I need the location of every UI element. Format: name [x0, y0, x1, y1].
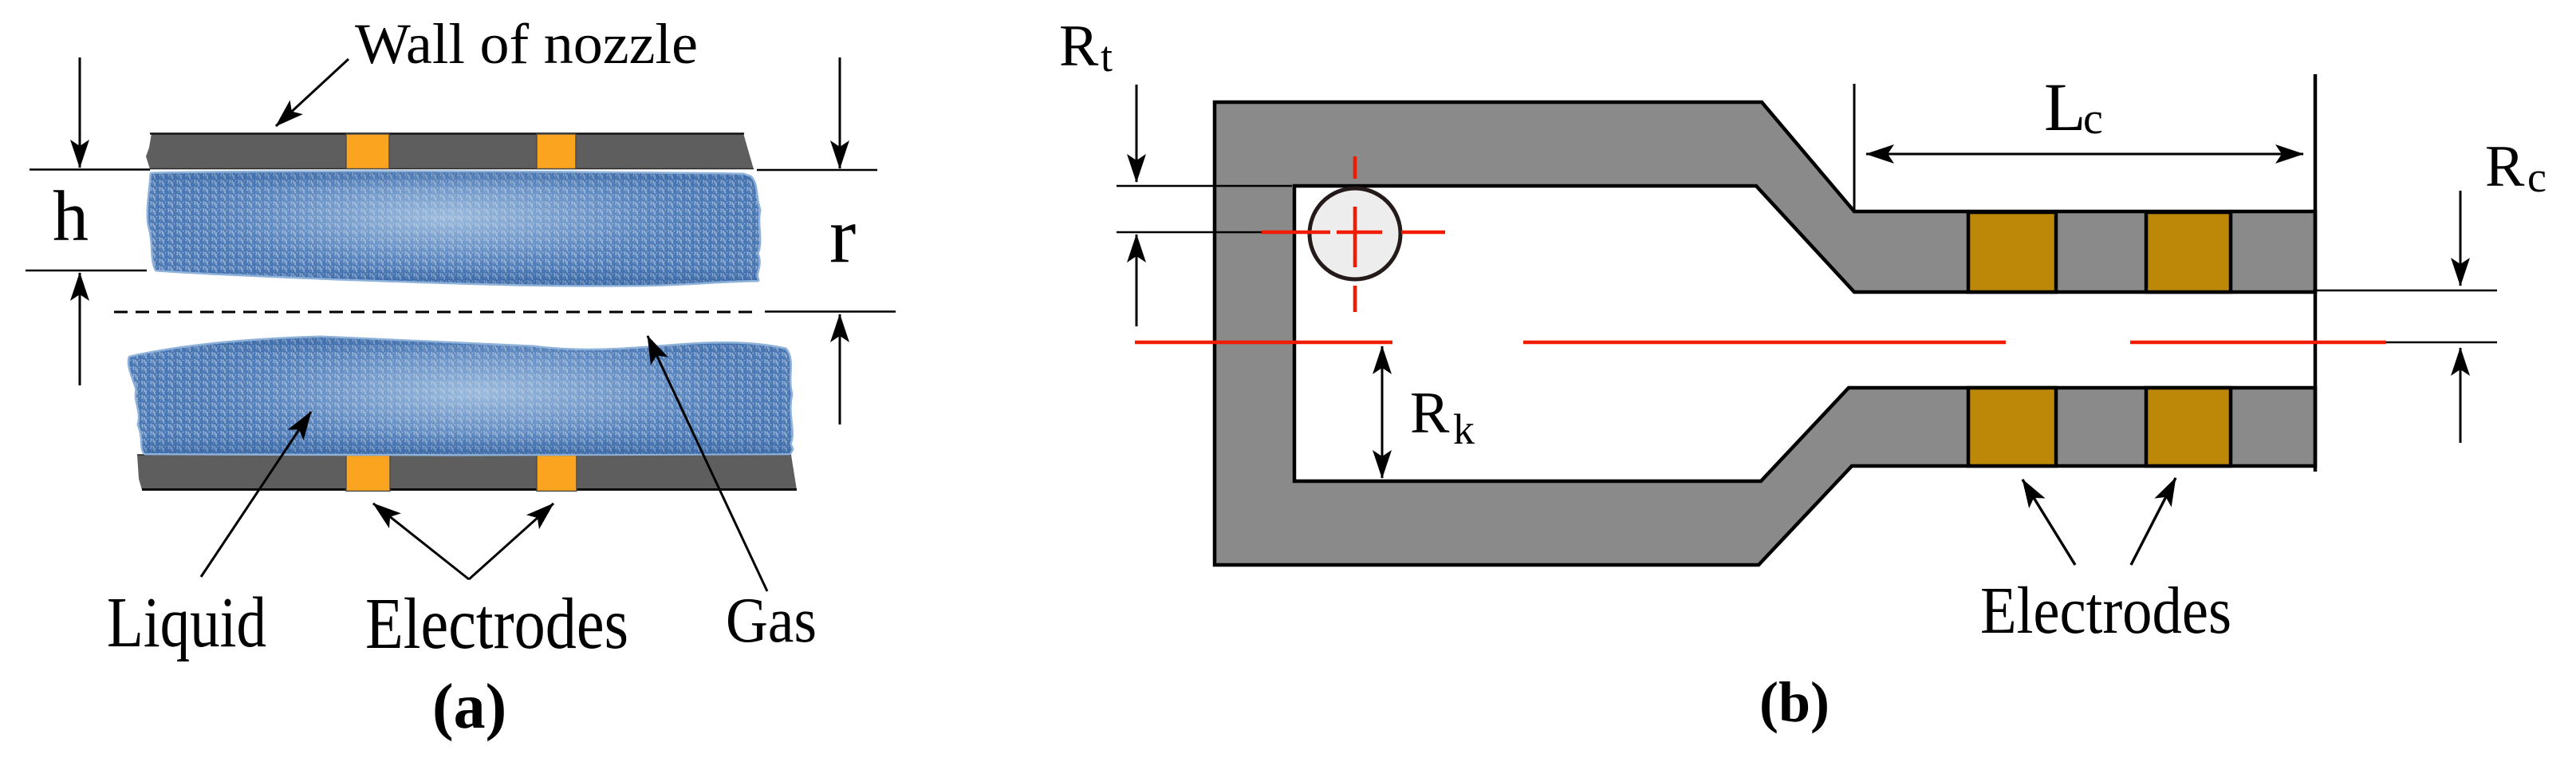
svg-text:Gas: Gas [726, 586, 817, 656]
leader arrow to liquid [201, 412, 311, 577]
r dimension: upper extension line [757, 169, 877, 171]
Rt extension line 1 (tube top) [1117, 185, 1292, 187]
svg-text:(b): (b) [1759, 670, 1830, 734]
solid axis extension right (a) [765, 310, 896, 313]
red axis centerline segments (b) [1135, 341, 2386, 345]
svg-text:R: R [1059, 14, 1099, 79]
svg-text:c: c [2083, 94, 2103, 144]
svg-text:k: k [1453, 405, 1475, 453]
red center mark horizontal [1262, 231, 1445, 235]
Rc up arrow [2460, 348, 2462, 443]
electrode A1 (upper wall, orange) [346, 134, 389, 169]
Rc down arrow [2460, 191, 2462, 286]
electrode A2 (upper wall, orange) [537, 134, 576, 169]
electrode A3 (lower wall, orange) [346, 456, 390, 492]
thin line at capillary inner top, right of exit [2315, 290, 2497, 291]
Rt down arrow [1136, 85, 1138, 182]
leader arrow to gas [648, 336, 767, 591]
wall of nozzle: upper gray bar [146, 133, 754, 169]
thin axis line right of capillary exit (black) [2305, 342, 2497, 343]
h dimension: up arrow [79, 273, 81, 385]
svg-text:h: h [53, 177, 89, 256]
label Rk [1410, 381, 1475, 453]
capillary exit vertical edge / Lc right extension line [2314, 74, 2318, 472]
svg-text:(a): (a) [432, 672, 506, 742]
Lc left extension line [1853, 84, 1856, 211]
red center mark vertical [1353, 156, 1357, 312]
svg-text:Liquid: Liquid [107, 583, 266, 662]
svg-text:Electrodes: Electrodes [365, 583, 628, 664]
svg-text:c: c [2527, 153, 2546, 201]
svg-text:t: t [1101, 33, 1113, 81]
label Rc [2485, 134, 2546, 201]
electrode B3 (bottom capillary wall) [1968, 388, 2056, 466]
nozzle body (b), gray with black outline [1215, 102, 2315, 565]
Rk double arrow [1381, 346, 1384, 478]
svg-text:Wall of nozzle: Wall of nozzle [355, 12, 698, 76]
electrode B2 (top capillary wall) [2146, 212, 2231, 292]
svg-text:L: L [2044, 69, 2086, 145]
leader arrows to electrodes (a) [373, 503, 553, 579]
leader arrow to wall of nozzle [276, 59, 349, 126]
lower liquid film [129, 338, 792, 454]
label Rt [1059, 14, 1113, 81]
electrode B4 (bottom capillary wall) [2146, 388, 2231, 466]
Rt up arrow [1136, 235, 1138, 326]
Rt extension line 2 (tube axis) [1117, 231, 1356, 233]
r dimension: down arrow [839, 57, 841, 168]
upper liquid film [148, 172, 759, 285]
svg-text:R: R [2485, 134, 2525, 199]
r dimension: up arrow [839, 314, 841, 424]
liquid feed tube (circle) [1310, 188, 1400, 279]
wall of nozzle: lower gray bar [137, 455, 797, 490]
svg-text:R: R [1410, 381, 1450, 446]
svg-text:r: r [829, 191, 856, 279]
h dimension: upper extension line [30, 168, 150, 170]
h dimension: down arrow [79, 57, 81, 168]
label Lc [2044, 69, 2103, 145]
electrode B1 (top capillary wall) [1968, 212, 2056, 292]
Lc dimension double arrow [1866, 153, 2303, 156]
electrode A4 (lower wall, orange) [537, 456, 577, 492]
svg-text:Electrodes: Electrodes [1980, 574, 2231, 648]
leader arrows to electrodes (b) [2023, 478, 2176, 565]
dashed axis centerline (a) [114, 311, 759, 314]
h dimension: lower extension line [26, 270, 147, 271]
